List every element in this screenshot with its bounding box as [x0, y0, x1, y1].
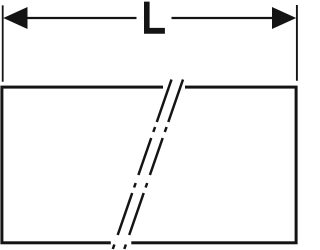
dimension line left segment — [26, 17, 137, 19]
rectangle body outline — [2, 87, 296, 243]
extension line right — [296, 5, 298, 81]
arrowhead right — [272, 7, 296, 29]
break line 2 middle dash — [150, 138, 163, 175]
break line 1 lower dash — [118, 193, 133, 235]
break line 1 dot — [153, 127, 155, 132]
gap in top edge at break — [163, 85, 185, 90]
label L — [144, 2, 165, 34]
break line 1 middle dash — [138, 138, 151, 175]
break line 2 dot — [146, 183, 148, 188]
gap in bottom edge at break — [111, 240, 132, 245]
break line 1 bottom tail — [113, 245, 115, 250]
break line 1 solid top segment — [157, 80, 172, 123]
break line 1 dot — [134, 183, 136, 188]
arrowhead left — [3, 7, 27, 29]
extension line left — [2, 5, 4, 81]
break line 2 lower dash — [129, 193, 144, 235]
dimension line right segment — [172, 17, 274, 19]
break line 2 dot — [165, 127, 167, 132]
break line 2 bottom tail — [124, 245, 126, 250]
break line 2 solid top segment — [168, 80, 183, 123]
